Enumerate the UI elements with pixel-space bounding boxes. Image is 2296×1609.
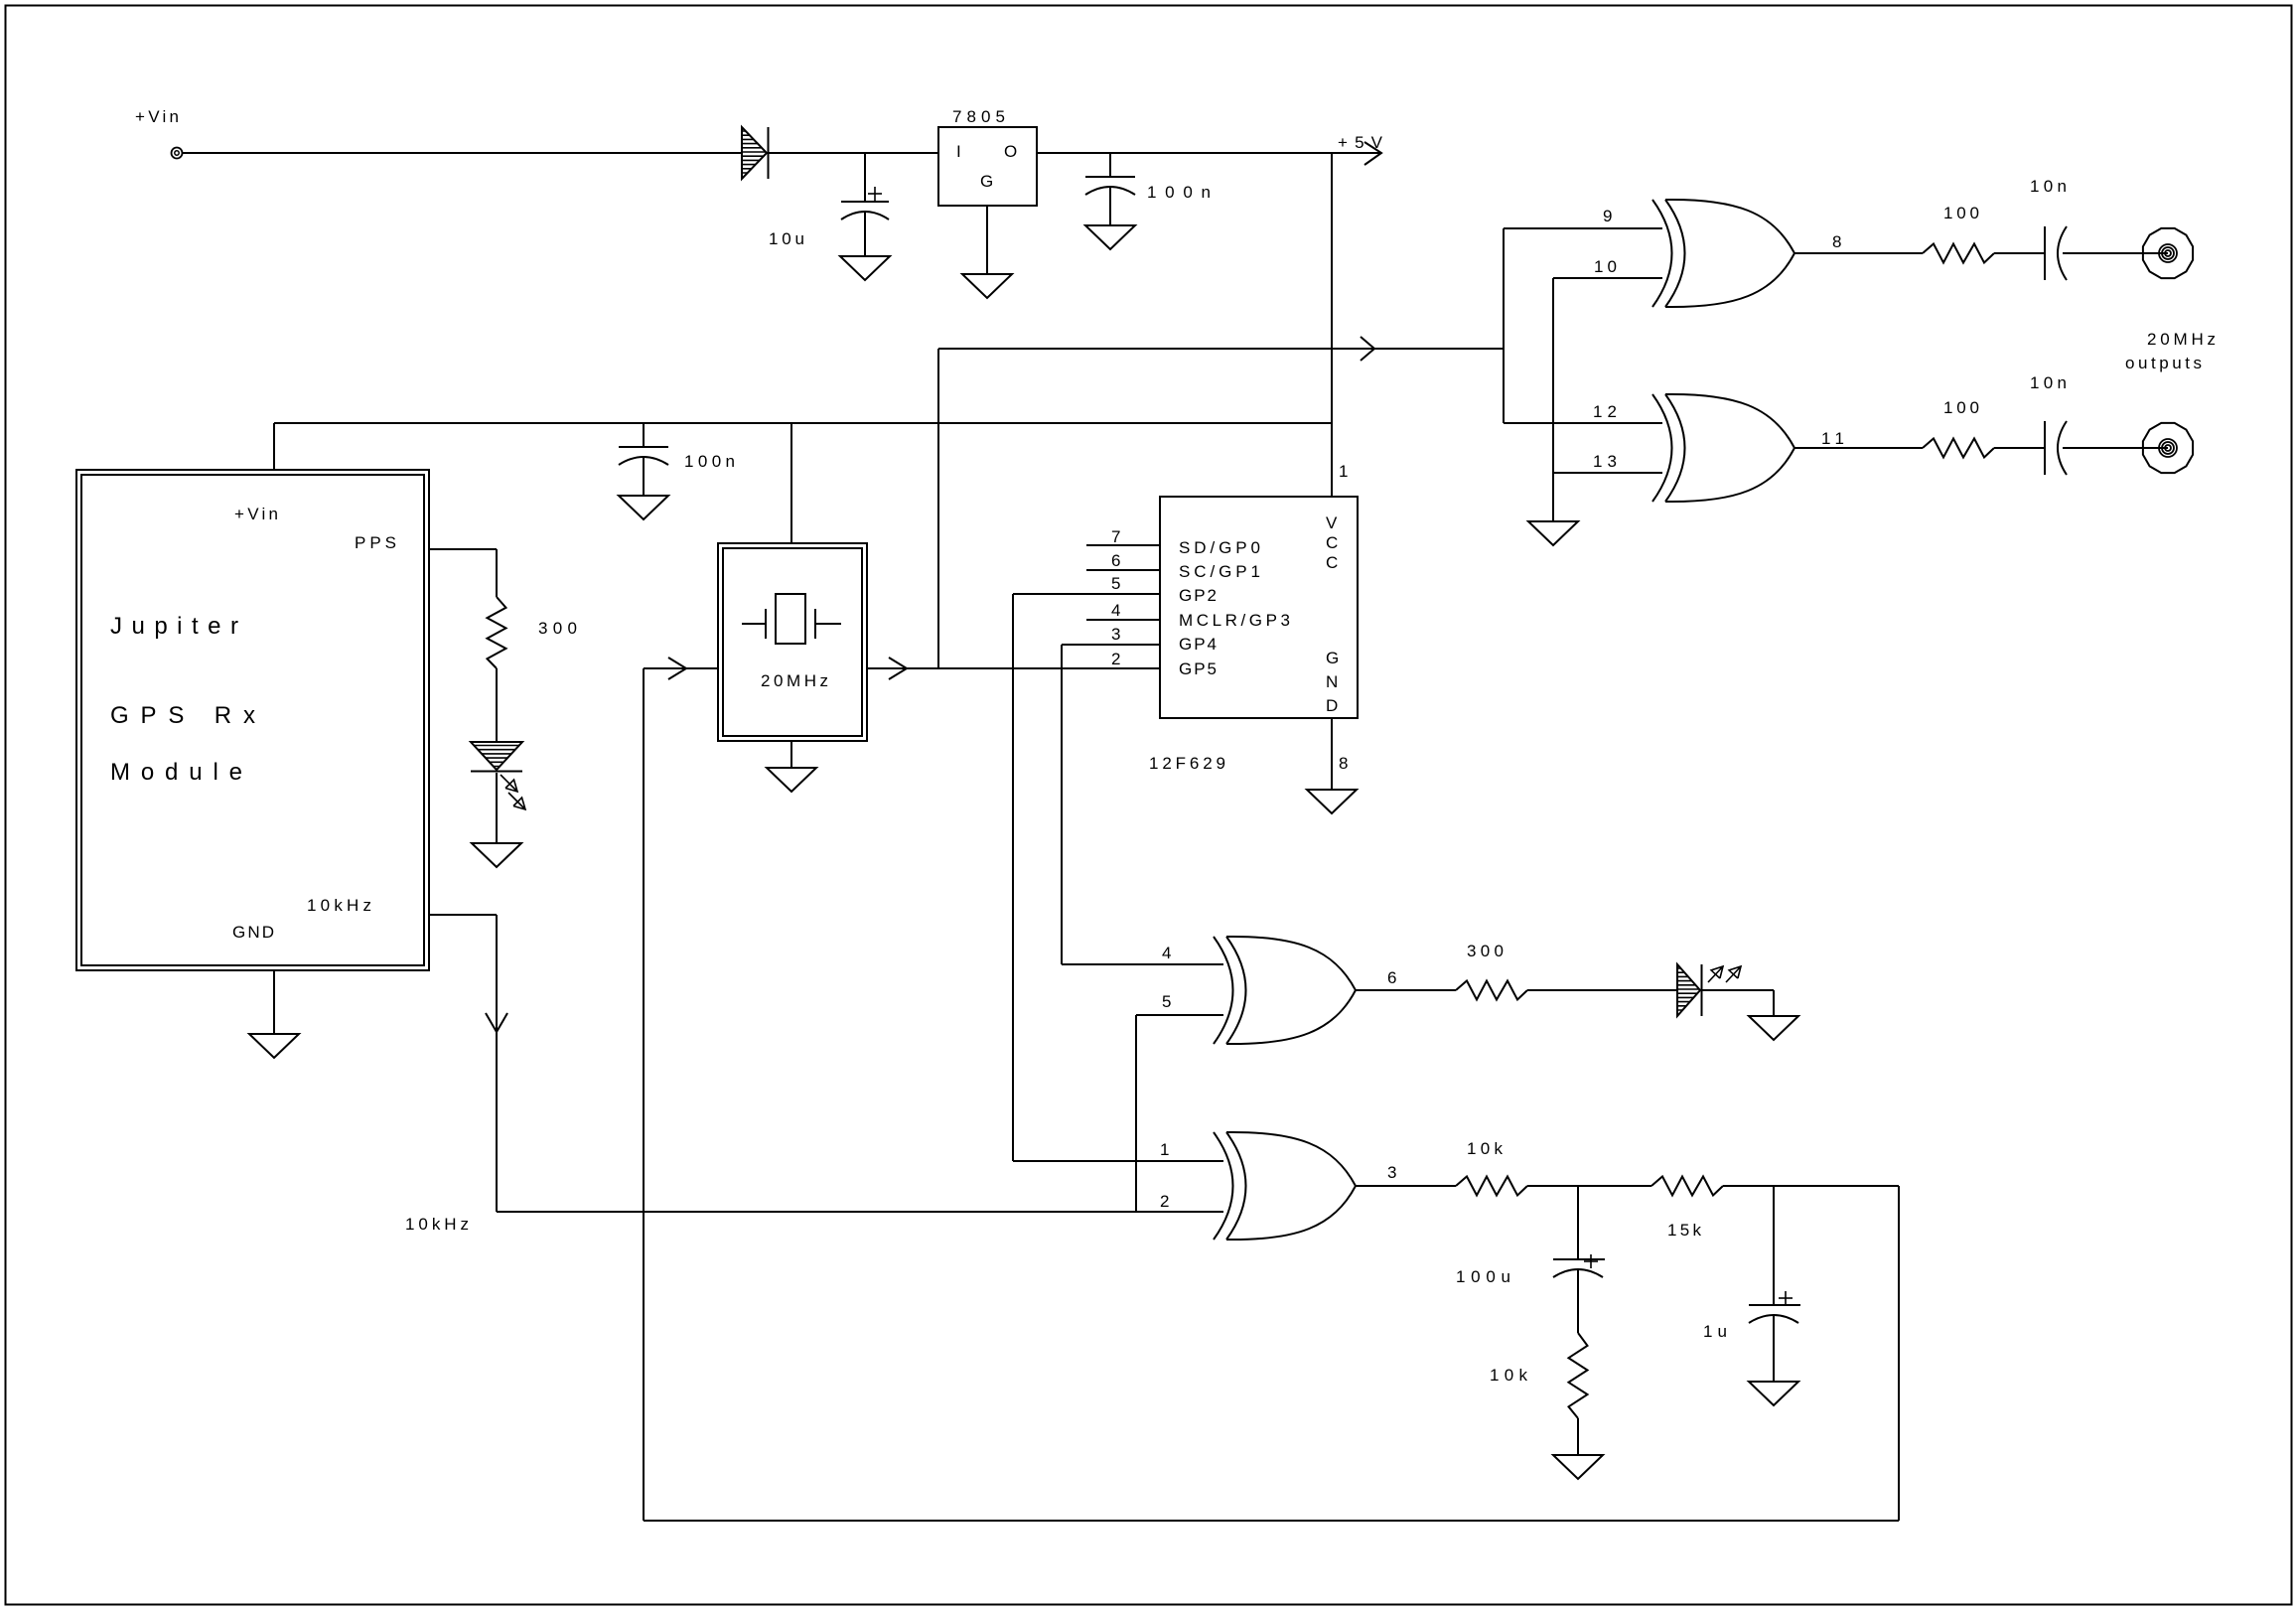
capacitor C1 10u polarity + — [868, 193, 882, 195]
wire oscillator VCC pin to +5V rail — [790, 423, 792, 543]
wire 20MHz line from oscillator riser — [938, 348, 1504, 350]
xor-gate U1b — [1652, 394, 1672, 502]
LED D2 light arrow 1 — [501, 775, 517, 792]
svg-text:G: G — [980, 172, 993, 191]
svg-text:5: 5 — [1111, 574, 1120, 593]
oscillator X1 box outer — [718, 543, 867, 741]
svg-text:V: V — [1326, 513, 1338, 532]
ground under 7805 — [962, 274, 1012, 298]
svg-text:5: 5 — [1162, 992, 1171, 1011]
wire oscillator output to PIC GP5 — [867, 667, 1160, 669]
capacitor C1 10u plus plate — [841, 201, 889, 203]
svg-text:MCLR/GP3: MCLR/GP3 — [1179, 611, 1290, 630]
svg-text:3: 3 — [1387, 1163, 1396, 1182]
svg-text:C: C — [1326, 533, 1338, 552]
wire R6 to feedback corner — [1723, 1185, 1899, 1187]
resistor R7 10k — [1569, 1333, 1588, 1418]
wire XOR U1b output 11 — [1794, 447, 1923, 449]
svg-text:10n: 10n — [2030, 177, 2067, 196]
svg-text:100: 100 — [1943, 204, 1979, 222]
ground under C7 — [1749, 1382, 1798, 1405]
wire R3 to C5 — [1994, 447, 2045, 449]
wire XOR U1c input 5 horizontal — [1136, 1014, 1223, 1016]
svg-text:GP2: GP2 — [1179, 586, 1217, 605]
svg-text:1: 1 — [1339, 462, 1348, 481]
wire GPS 10kHz pin — [429, 914, 497, 916]
xor-gate U1d — [1214, 1132, 1233, 1240]
svg-text:10k: 10k — [1490, 1366, 1528, 1385]
capacitor C2 100n lead — [1109, 153, 1111, 177]
xor-gate U1c — [1214, 937, 1233, 1044]
wire XOR U1c input 5 vertical to 10kHz — [1135, 1015, 1137, 1212]
wire C4 to output connector J1 — [2063, 252, 2168, 254]
wire LED D2 to ground — [496, 773, 498, 843]
capacitor C1 10u lead — [864, 153, 866, 202]
pin 6 stub — [1086, 569, 1160, 571]
capacitor C6 100u plus plate — [1553, 1258, 1605, 1260]
wire GPS +Vin pin to +5V rail — [273, 423, 275, 470]
pin 5 stub GP2 — [1013, 593, 1160, 595]
wire GPS GND pin to ground — [273, 970, 275, 1034]
svg-text:3: 3 — [1111, 625, 1120, 644]
svg-text:1: 1 — [1160, 1140, 1169, 1159]
connector J2 20MHz output — [2143, 423, 2193, 473]
svg-text:PPS: PPS — [355, 533, 396, 552]
capacitor C1 10u bottom lead — [864, 213, 866, 256]
wire GP4 down to XOR U1c input 4 — [1061, 645, 1063, 964]
crystal symbol left lead — [742, 623, 766, 625]
wire R1 to LED D2 — [496, 668, 498, 742]
capacitor C6 100u lead — [1577, 1186, 1579, 1259]
arrow into oscillator input — [668, 658, 686, 679]
svg-text:10n: 10n — [2030, 373, 2067, 392]
svg-text:15k: 15k — [1667, 1221, 1702, 1240]
LED D2 cathode bar — [471, 771, 522, 773]
wire feedback right vertical — [1898, 1186, 1900, 1521]
wire 20MHz line down to XOR inputs — [1503, 228, 1505, 423]
capacitor C6 polarity + — [1584, 1260, 1598, 1262]
terminal +Vin input — [172, 148, 183, 159]
wire R7 to ground — [1577, 1418, 1579, 1455]
svg-text:6: 6 — [1111, 551, 1120, 570]
svg-text:I: I — [956, 142, 961, 161]
resistor R5 10k — [1456, 1177, 1527, 1196]
wire C7 to ground — [1773, 1316, 1775, 1382]
wire C6 to R7 — [1577, 1270, 1579, 1333]
ground under XOR input 10/13 — [1528, 521, 1578, 545]
capacitor C2 100n bottom lead — [1109, 188, 1111, 225]
crystal symbol body — [776, 594, 805, 644]
svg-text:6: 6 — [1387, 968, 1396, 987]
wire GPS PPS pin — [429, 548, 497, 550]
ground under GPS module — [249, 1034, 299, 1058]
svg-text:2: 2 — [1160, 1192, 1169, 1211]
svg-text:300: 300 — [538, 619, 577, 638]
wire R5 to R6 — [1527, 1185, 1651, 1187]
regulator U2 7805 box — [938, 127, 1037, 206]
ground under LED D3 — [1749, 1016, 1798, 1040]
capacitor C3 100n bottom lead — [643, 458, 645, 496]
resistor R3 100 — [1923, 439, 1994, 458]
wire XOR U1 input 12 — [1504, 422, 1662, 424]
svg-text:8: 8 — [1339, 754, 1348, 773]
svg-text:7: 7 — [1111, 527, 1120, 546]
GPS module box inner — [81, 475, 424, 965]
capacitor C1 10u curved plate — [841, 212, 889, 219]
wire +5V rail down to PIC VCC — [1331, 153, 1333, 497]
wire XOR U1a output 8 — [1794, 252, 1923, 254]
wire XOR U1 input 9 — [1504, 227, 1662, 229]
crystal symbol right lead — [815, 623, 841, 625]
svg-text:GND: GND — [232, 923, 274, 942]
arrow on oscillator output — [889, 658, 907, 679]
pin 3 stub GP4 — [1062, 644, 1160, 646]
wire GP2 horizontal to XOR U1d — [1013, 1160, 1223, 1162]
wire feedback bottom rail — [644, 1520, 1899, 1522]
capacitor C4 10n curved plate — [2058, 226, 2067, 280]
LED D2 (PPS indicator) — [471, 742, 522, 770]
wire XOR U1d output 3 — [1356, 1185, 1456, 1187]
oscillator X1 box inner — [723, 548, 862, 736]
wire riser oscillator output to 20MHz line — [937, 349, 939, 668]
svg-text:C: C — [1326, 553, 1338, 572]
svg-text:10u: 10u — [769, 229, 804, 248]
GPS module box outer — [76, 470, 429, 970]
resistor R4 300 — [1456, 981, 1527, 1000]
ground under U3 — [1307, 790, 1357, 813]
diode D1 cathode bar — [768, 127, 770, 179]
capacitor C5 10n flat plate — [2044, 421, 2046, 475]
wire R2 to C4 — [1994, 252, 2045, 254]
svg-text:9: 9 — [1603, 207, 1612, 225]
wire LED D3 to ground corner — [1702, 989, 1774, 991]
capacitor C2 100n top plate — [1085, 176, 1135, 178]
LED D3 (lock indicator) — [1677, 964, 1700, 1016]
wire XOR U1 input 10 — [1553, 277, 1662, 279]
connector J1 20MHz output — [2143, 228, 2193, 278]
crystal symbol left plate — [765, 609, 767, 639]
resistor R6 15k — [1651, 1177, 1723, 1196]
wire XOR U1 input 13 — [1553, 472, 1662, 474]
wire 10kHz vertical — [496, 915, 498, 1212]
wire PPS to resistor R1 — [496, 549, 498, 597]
arrow on 20MHz line — [1361, 337, 1374, 361]
svg-text:4: 4 — [1111, 601, 1120, 620]
svg-text:D: D — [1326, 696, 1338, 715]
svg-text:100: 100 — [1943, 398, 1979, 417]
ground under C3 — [619, 496, 668, 519]
LED D3 light arrow 2 — [1726, 966, 1741, 982]
svg-text:+Vin: +Vin — [135, 107, 179, 126]
crystal symbol right plate — [814, 609, 816, 639]
resistor R2 100 — [1923, 244, 1994, 263]
wire grounded XOR inputs vertical — [1552, 278, 1554, 521]
svg-text:4: 4 — [1162, 944, 1171, 962]
wire +5V rail to GPS module — [274, 422, 1332, 424]
wire 7805 G pin to ground — [986, 206, 988, 274]
svg-text:+Vin: +Vin — [234, 505, 278, 523]
pin 7 stub — [1086, 544, 1160, 546]
arrow on 10kHz wire — [486, 1013, 507, 1032]
LED D3 light arrow 1 — [1708, 966, 1723, 982]
capacitor C7 1u curved plate — [1749, 1315, 1798, 1323]
capacitor C6 100u curved plate — [1553, 1269, 1603, 1277]
LED D2 light arrow 2 — [508, 793, 525, 809]
wire R4 to LED D3 — [1527, 989, 1677, 991]
diode D1 (series protection) — [742, 127, 767, 179]
svg-text:GP4: GP4 — [1179, 635, 1217, 654]
svg-text:300: 300 — [1467, 942, 1504, 960]
capacitor C4 10n flat plate — [2044, 226, 2046, 280]
svg-text:GP5: GP5 — [1179, 659, 1217, 678]
wire GP4 horizontal to XOR U1c — [1062, 963, 1223, 965]
wire GP2 down to XOR U1d input 1 — [1012, 594, 1014, 1161]
svg-text:G: G — [1326, 649, 1339, 667]
wire U3 GND pin 8 to ground — [1331, 718, 1333, 790]
ground under C1 — [840, 256, 890, 280]
capacitor C2 100n curved plate — [1085, 187, 1135, 195]
svg-text:O: O — [1004, 142, 1017, 161]
svg-text:2: 2 — [1111, 650, 1120, 668]
capacitor C3 100n curved plate — [619, 457, 668, 465]
capacitor C7 polarity + — [1779, 1297, 1793, 1299]
resistor R1 300 — [488, 597, 506, 668]
capacitor C3 100n lead — [643, 423, 645, 447]
wire diode to 7805 input — [769, 152, 938, 154]
capacitor C5 10n curved plate — [2058, 421, 2067, 475]
xor-gate U1a — [1652, 200, 1672, 307]
wire feedback vertical to oscillator input — [643, 668, 645, 1521]
capacitor C7 1u lead — [1773, 1186, 1775, 1305]
ground under LED D2 — [472, 843, 521, 867]
svg-text:10k: 10k — [1467, 1139, 1504, 1158]
wire oscillator input from feedback — [644, 667, 718, 669]
pin 4 stub — [1086, 619, 1160, 621]
ground under R7 — [1553, 1455, 1603, 1479]
ic U3 12F629 box — [1160, 497, 1358, 718]
capacitor C7 1u plus plate — [1749, 1304, 1800, 1306]
wire 10kHz to XOR U1d input 2 — [497, 1211, 1223, 1213]
ground under C2 — [1085, 225, 1135, 249]
capacitor C3 100n top plate — [619, 446, 668, 448]
power arrow +5V — [1364, 142, 1381, 165]
wire oscillator ground pin — [790, 741, 792, 768]
wire +Vin terminal to diode D1 — [182, 152, 742, 154]
svg-text:N: N — [1326, 672, 1338, 691]
wire C5 to output connector J2 — [2063, 447, 2168, 449]
wire 7805 output to +5V arrow — [1037, 152, 1381, 154]
wire XOR U1c output 6 — [1356, 989, 1456, 991]
ground under oscillator — [767, 768, 816, 792]
svg-text:8: 8 — [1832, 232, 1841, 251]
LED D3 cathode bar — [1701, 964, 1703, 1016]
